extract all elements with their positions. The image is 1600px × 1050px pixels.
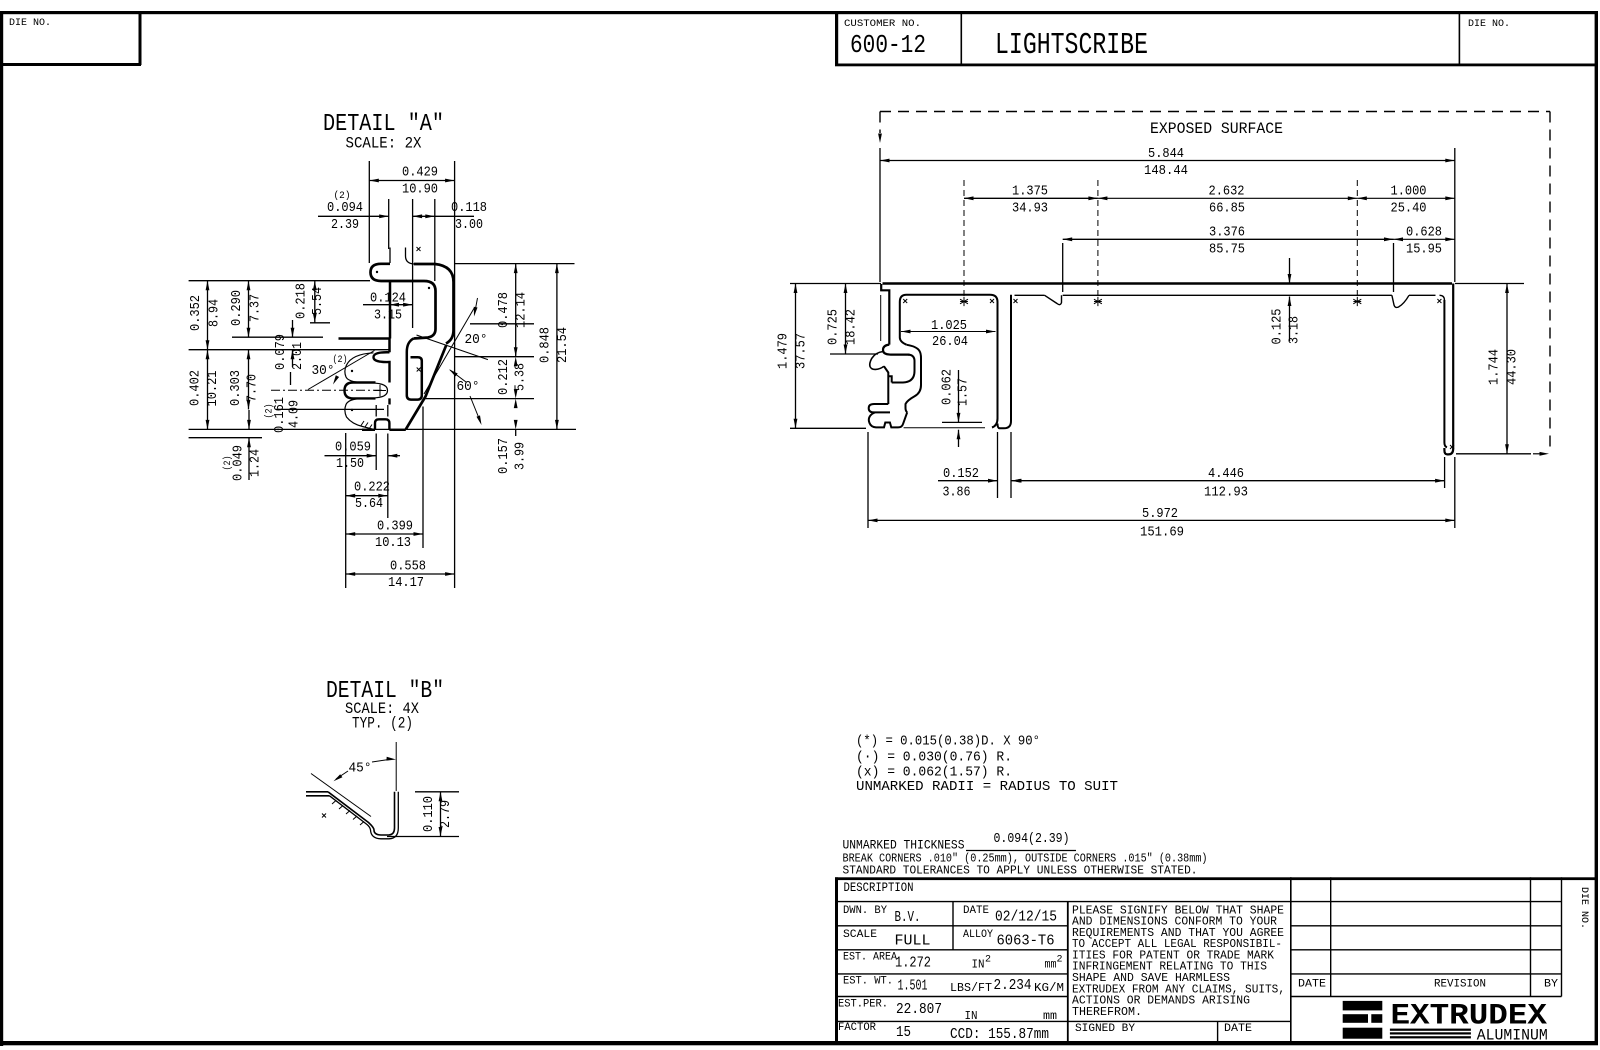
svg-text:0.152: 0.152 [943,467,979,482]
svg-text:7.70: 7.70 [246,374,261,402]
svg-text:10.21: 10.21 [206,371,221,407]
svg-text:EST. WT.: EST. WT. [843,976,893,988]
svg-text:(2): (2) [333,354,348,366]
extension lines for 3.376 row [1062,243,1064,292]
svg-text:5.38: 5.38 [514,363,529,391]
svg-text:15: 15 [896,1024,911,1041]
svg-text:DWN. BY: DWN. BY [843,905,887,917]
svg-text:0.558: 0.558 [390,560,426,575]
svg-text:CCD: 155.87mm: CCD: 155.87mm [950,1026,1049,1043]
svg-text:15.95: 15.95 [1406,243,1442,258]
svg-text:mm: mm [1043,1009,1057,1023]
svg-text:3.86: 3.86 [943,486,971,501]
svg-text:1.744: 1.744 [1488,349,1503,385]
svg-text:26.04: 26.04 [932,335,968,350]
svg-text:25.40: 25.40 [1391,202,1427,217]
svg-text:4.09: 4.09 [288,400,303,428]
svg-text:2.79: 2.79 [439,800,454,828]
dashed centerlines to surface marks [963,180,965,296]
surface marks on main profile [960,297,968,306]
svg-text:TYP. (2): TYP. (2) [352,715,413,733]
svg-text:1.501: 1.501 [898,978,928,995]
svg-text:0.062: 0.062 [941,369,956,405]
svg-text:LIGHTSCRIBE: LIGHTSCRIBE [995,28,1148,63]
extrudex logo stripes [1390,1029,1471,1031]
svg-text:20°: 20° [465,333,488,348]
svg-text:0.049: 0.049 [232,445,247,481]
svg-text:UNMARKED THICKNESS: UNMARKED THICKNESS [843,838,965,853]
svg-text:112.93: 112.93 [1204,486,1248,501]
svg-text:DIE NO.: DIE NO. [1578,887,1590,929]
svg-text:DIE NO.: DIE NO. [9,17,51,29]
exposed surface dashed boundary [880,111,1550,113]
main profile right wall [1444,284,1453,455]
svg-text:5.844: 5.844 [1148,147,1184,162]
svg-text:UNMARKED RADII = RADIUS TO SUI: UNMARKED RADII = RADIUS TO SUIT [856,780,1118,795]
svg-text:12.14: 12.14 [515,292,530,328]
customer header box [835,64,1597,67]
svg-text:44.30: 44.30 [1506,349,1521,385]
svg-text:3.376: 3.376 [1209,226,1245,241]
svg-text:1.375: 1.375 [1012,185,1048,200]
svg-text:SCALE: SCALE [843,929,877,941]
svg-text:3.18: 3.18 [1288,316,1303,344]
sheet border frame [0,11,1598,14]
svg-text:0.157: 0.157 [497,438,512,474]
svg-text:1.50: 1.50 [336,457,364,472]
svg-text:DESCRIPTION: DESCRIPTION [844,881,914,895]
svg-text:0.399: 0.399 [377,520,413,535]
svg-text:0.478: 0.478 [497,292,512,328]
svg-text:SIGNED BY: SIGNED BY [1075,1023,1135,1035]
svg-text:6063-T6: 6063-T6 [997,933,1055,950]
svg-text:30°: 30° [312,364,335,379]
detail A radius dots [351,370,353,372]
svg-text:(x) = 0.062(1.57) R.: (x) = 0.062(1.57) R. [856,766,1012,781]
dimension 4.446 / 112.93 [1444,457,1446,488]
svg-text:FULL: FULL [895,933,931,950]
baseline extension right of gasket foot [904,427,985,429]
main profile top plate [883,282,1453,285]
svg-text:DATE: DATE [1298,979,1326,991]
title block grid [835,877,1595,880]
svg-text:mm: mm [1045,958,1057,972]
svg-text:1.000: 1.000 [1391,185,1427,200]
extrudex logo icon bars [1343,1001,1383,1011]
svg-text:BY: BY [1544,979,1558,991]
svg-text:34.93: 34.93 [1012,202,1048,217]
svg-text:2.39: 2.39 [331,218,359,233]
svg-text:0.848: 0.848 [539,327,554,363]
svg-text:(·) = 0.030(0.76) R.: (·) = 0.030(0.76) R. [856,751,1012,766]
svg-text:ALUMINUM: ALUMINUM [1477,1027,1548,1045]
dimension 0.152 / 3.86 wall [997,432,999,498]
svg-text:0.161: 0.161 [273,397,288,433]
svg-text:14.17: 14.17 [388,576,424,591]
svg-text:IN: IN [965,1009,978,1023]
svg-text:IN: IN [972,958,985,972]
svg-text:ALLOY: ALLOY [963,929,993,941]
detail A profile outline [389,248,391,264]
svg-text:FACTOR: FACTOR [838,1022,876,1034]
svg-text:0.059: 0.059 [335,441,371,456]
svg-text:CUSTOMER NO.: CUSTOMER NO. [844,18,921,30]
svg-text:45°: 45° [349,762,372,777]
svg-text:REVISION: REVISION [1434,979,1486,991]
svg-text:3.15: 3.15 [374,309,402,324]
extension lines right of detail A [455,263,575,265]
svg-text:148.44: 148.44 [1144,164,1188,179]
svg-text:2: 2 [985,955,991,966]
extension lines left of detail A [189,280,370,282]
svg-text:1.24: 1.24 [249,449,264,477]
svg-text:THEREFROM.: THEREFROM. [1072,1006,1142,1019]
svg-text:B.V.: B.V. [895,909,921,926]
svg-text:EXPOSED SURFACE: EXPOSED SURFACE [1150,120,1283,138]
svg-text:0.303: 0.303 [229,370,244,406]
dimension 0.125 / 3.18 plate thickness [1289,258,1291,284]
dimension 5.844 / 148.44 [879,148,881,282]
svg-text:0.725: 0.725 [827,309,842,345]
svg-text:02/12/15: 02/12/15 [995,909,1057,926]
svg-text:0.110: 0.110 [422,796,437,832]
dimension 0.725 / 18.42 [830,353,878,355]
svg-text:0.352: 0.352 [189,295,204,331]
svg-text:0.212: 0.212 [497,359,512,395]
svg-text:0.222: 0.222 [354,481,390,496]
dimension 1.479 / 37.57 left height [790,283,881,285]
detail B groove profile [306,792,330,796]
svg-text:1.479: 1.479 [777,333,792,369]
detail B 45 deg reference line [311,774,371,817]
svg-text:0.429: 0.429 [402,166,438,181]
svg-text:0.079: 0.079 [274,334,289,370]
svg-text:EST. AREA: EST. AREA [843,952,897,964]
svg-text:SCALE: 2X: SCALE: 2X [346,135,423,153]
svg-text:85.75: 85.75 [1209,243,1245,258]
svg-text:0.628: 0.628 [1406,226,1442,241]
svg-text:7.37: 7.37 [249,294,264,322]
svg-text:37.57: 37.57 [795,333,810,369]
svg-text:2.632: 2.632 [1209,185,1245,200]
dimension 0.110 / 2.79 [415,791,459,793]
svg-text:8.94: 8.94 [208,299,223,327]
svg-text:21.54: 21.54 [556,327,571,363]
svg-text:2.234: 2.234 [994,977,1032,994]
dimension 5.972 / 151.69 [867,432,869,528]
centerline through finger [271,389,384,391]
svg-text:(*) = 0.015(0.38)D. X 90°: (*) = 0.015(0.38)D. X 90° [856,735,1040,750]
svg-text:10.90: 10.90 [402,183,438,198]
svg-text:66.85: 66.85 [1209,202,1245,217]
extension lines top of detail A [368,161,370,263]
svg-text:5.54: 5.54 [311,287,326,315]
detail B x mark [322,814,326,818]
svg-text:0.118: 0.118 [451,201,487,216]
svg-text:0.094: 0.094 [327,201,363,216]
svg-text:151.69: 151.69 [1140,526,1184,541]
svg-text:STANDARD TOLERANCES TO APPLY U: STANDARD TOLERANCES TO APPLY UNLESS OTHE… [843,864,1198,878]
svg-text:4.446: 4.446 [1208,467,1244,482]
svg-text:EST.PER.: EST.PER. [838,999,888,1011]
extension lines below detail A [345,433,347,588]
die no. box top-left [0,63,141,66]
svg-text:60°: 60° [457,380,480,395]
svg-text:DATE: DATE [963,905,989,917]
svg-text:0.094(2.39): 0.094(2.39) [994,832,1070,847]
svg-text:1.272: 1.272 [895,955,931,972]
svg-text:KG/M: KG/M [1034,981,1064,995]
main profile left gasket interlock [883,345,910,355]
svg-text:5.64: 5.64 [355,497,383,512]
svg-text:10.13: 10.13 [375,536,411,551]
svg-text:0.125: 0.125 [1271,309,1286,345]
svg-text:0.290: 0.290 [230,290,245,326]
svg-text:3.99: 3.99 [514,442,529,470]
svg-text:DATE: DATE [1224,1023,1252,1035]
svg-text:LBS/FT: LBS/FT [950,981,992,995]
dimension 1.744 / 44.30 right height [1455,283,1524,285]
svg-text:0.218: 0.218 [295,283,310,319]
detail B hatch ticks [332,801,364,826]
svg-text:22.807: 22.807 [896,1001,942,1018]
detail A x marks [417,247,421,251]
svg-text:DIE NO.: DIE NO. [1468,18,1510,30]
main profile left wall and gasket pocket [881,284,889,345]
svg-text:2: 2 [1057,955,1063,966]
svg-text:3.00: 3.00 [455,218,483,233]
svg-text:18.42: 18.42 [845,309,860,345]
svg-text:0.402: 0.402 [189,370,204,406]
svg-text:600-12: 600-12 [850,30,926,60]
